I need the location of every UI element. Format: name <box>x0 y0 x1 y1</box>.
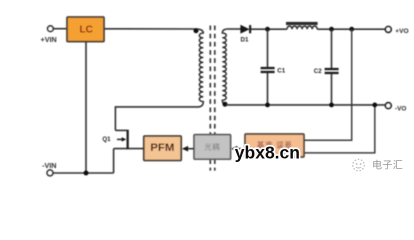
svg-text:+VIN: +VIN <box>41 35 57 44</box>
feedback wire 2 (-VO sense) <box>304 105 375 153</box>
block LC <box>67 17 104 42</box>
inductor winding <box>287 26 317 29</box>
transformer T1 core dashed line left <box>209 26 211 135</box>
svg-text:电子汇: 电子汇 <box>372 158 403 171</box>
node bottom rail / C2 <box>329 103 334 108</box>
terminal +VIN <box>48 26 54 32</box>
svg-text:ybx8.cn: ybx8.cn <box>235 143 300 163</box>
isolation dashed line left below optocoupler <box>209 159 211 170</box>
terminal -VO <box>385 103 391 109</box>
node secondary bottom (phase dot) <box>223 102 228 107</box>
wire +VIN to LC <box>53 28 67 30</box>
svg-text:C2: C2 <box>314 68 322 75</box>
wire LC to transformer primary <box>104 28 197 30</box>
node bottom rail / C1 <box>265 103 270 108</box>
wire inductor to +VO (top rail right) <box>317 28 385 30</box>
capacitor C1 <box>267 29 269 67</box>
node top rail / C2 <box>329 27 334 32</box>
terminal +VO <box>385 27 391 33</box>
transistor Q1 <box>115 129 126 131</box>
transformer T1 secondary winding <box>222 29 227 105</box>
node top rail / C1 <box>265 27 270 32</box>
block optocoupler <box>194 135 231 160</box>
wire PFM to Q1 source lead <box>114 148 144 150</box>
block error amplifier <box>245 134 304 157</box>
isolation dashed line right below optocoupler <box>214 159 216 170</box>
terminal -VIN <box>47 170 53 176</box>
watermark logo circle <box>353 159 365 171</box>
node bottom rail / feedback tap <box>372 103 377 108</box>
wire bottom input rail <box>53 172 114 174</box>
capacitor C2 <box>331 29 333 68</box>
svg-text:-VO: -VO <box>395 105 406 112</box>
wire optocoupler to PFM <box>187 148 194 150</box>
transformer T1 core dashed line right <box>214 26 216 135</box>
watermark ybx8.cn <box>235 143 300 163</box>
diode D1 <box>241 25 249 33</box>
node primary top (phase dot) <box>194 28 199 33</box>
svg-text:+VO: +VO <box>395 28 408 35</box>
node top rail / feedback tap <box>349 27 354 32</box>
svg-text:-VIN: -VIN <box>42 161 56 170</box>
svg-text:光耦: 光耦 <box>204 143 220 152</box>
inductor core bar <box>286 22 318 25</box>
svg-text:Q1: Q1 <box>102 136 111 143</box>
wire bottom output rail <box>226 104 385 106</box>
wire diode to inductor (top rail left) <box>251 28 287 30</box>
transformer T1 primary winding <box>197 29 203 107</box>
wire LC bottom to ground rail <box>85 42 87 173</box>
arrowhead into PFM <box>182 146 188 152</box>
svg-text:C1: C1 <box>277 68 285 75</box>
wire error amp to optocoupler <box>237 148 246 150</box>
svg-text:D1: D1 <box>241 37 249 44</box>
svg-text:PFM: PFM <box>150 142 174 154</box>
wire transformer primary bottom to Q1 drain <box>115 107 199 130</box>
block PFM <box>144 136 181 161</box>
arrowhead into optocoupler <box>231 146 237 152</box>
svg-text:LC: LC <box>80 25 93 36</box>
feedback wire 1 (+VO sense) <box>304 29 352 140</box>
wire secondary top to diode <box>227 28 242 30</box>
node input rail / LC branch <box>84 171 89 176</box>
